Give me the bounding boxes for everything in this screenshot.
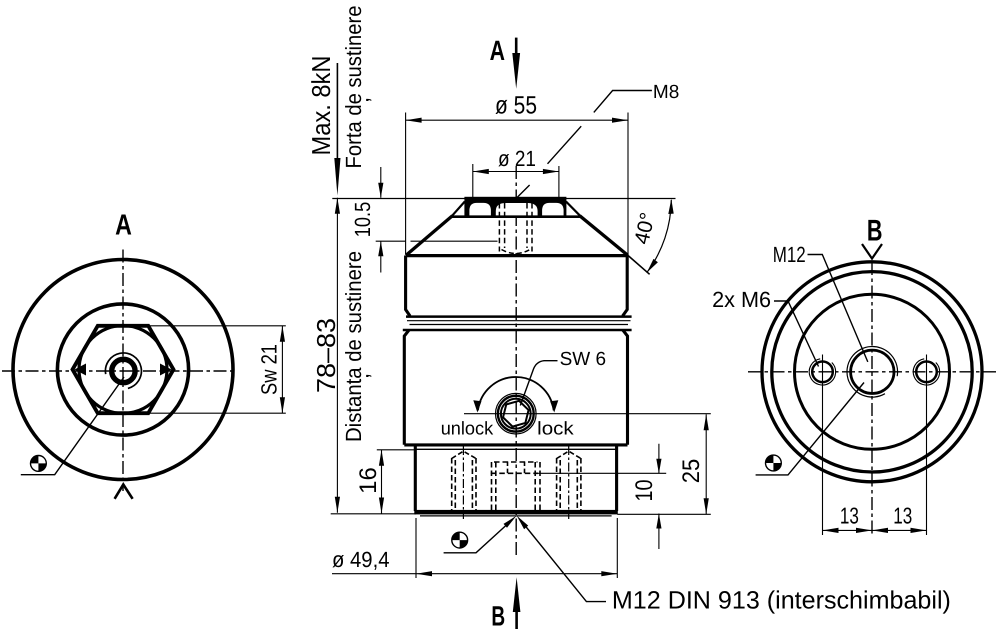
13 13 dimension [823,355,927,536]
M8 leader [517,91,652,198]
upper cylinder right edge [623,256,628,317]
svg-text:10.5: 10.5 [350,202,375,238]
pad top line thin [332,198,675,200]
svg-text:Distanta de sustinere: Distanta de sustinere [341,251,366,442]
bottom face bar [414,510,618,515]
center hole thick circle [112,359,135,382]
datum symbol center view [452,533,467,548]
horizontal centerline right view [748,371,996,373]
rotation arc [478,377,554,410]
hex chamfer circle [79,326,167,414]
10.5 dimension [380,167,382,273]
10 dimension [538,472,666,474]
svg-text:A: A [115,210,132,242]
pad top bar [464,197,566,217]
dia 49.4 dimension [416,518,617,578]
second circle right view [772,272,972,472]
16 dimension [377,449,414,451]
cone left slant [406,216,453,256]
pad dome right [541,202,565,217]
lower section top edge [403,329,632,332]
centerline vertical left view [122,250,124,492]
Sw21 arrow up [280,326,285,342]
M6 hole right dashed [557,451,581,510]
bottom cylinder right edge [615,446,618,511]
cone top edge [451,215,580,218]
lower section bottom edge [404,443,627,446]
bottom recess line [420,515,612,517]
svg-text:B: B [867,215,883,248]
upper cylinder bottom edge [406,315,632,318]
datum leader right view [756,383,864,475]
main centerline [515,166,517,558]
pad shoulder right [566,202,581,217]
cone right slant [580,216,628,256]
2x M6 leader [774,301,819,367]
Sw21 extension line bottom [130,412,286,414]
Sw21 arrow down [280,397,285,413]
svg-text:ø 55: ø 55 [495,92,537,120]
B view arrow [515,605,518,629]
svg-text:M12 DIN 913 (interschimbabil): M12 DIN 913 (interschimbabil) [612,587,951,615]
socket horizontal centerline [464,413,711,415]
bottom cylinder left edge [414,446,417,511]
pad dome middle [495,202,539,217]
inner circle right view [795,294,950,449]
datum symbol right view [766,455,781,470]
svg-text:25: 25 [678,459,705,484]
svg-text:,: , [349,97,374,103]
M8 hole dashed outer [499,203,532,252]
half section line at 10.5 [376,240,498,242]
svg-text:2x M6: 2x M6 [712,287,771,312]
svg-text:16: 16 [355,467,382,494]
svg-text:ø 21: ø 21 [498,146,536,171]
dia 21 dimension [472,164,474,199]
M8 hole dashed inner [505,203,527,248]
svg-text:M12: M12 [773,242,806,267]
upper cylinder left edge [406,256,410,317]
dia 55 dimension [405,113,407,255]
40 degree arc [647,200,672,273]
svg-text:,: , [349,373,374,379]
socket thread arc [496,393,537,434]
inner circle boss [57,304,188,435]
M8 hole dashed bottom [502,250,531,254]
groove line 2 [410,324,629,326]
centerline horizontal left view [2,370,236,372]
force arrow [336,63,338,172]
svg-text:lock: lock [537,418,574,439]
M12 center hole [851,350,894,393]
M6 hole left centerline [462,446,464,519]
cone right slant extension [628,255,650,274]
cone bottom edge [406,254,628,257]
M12 DIN leader [521,520,607,602]
outer circle body [13,260,233,480]
svg-text:10: 10 [631,480,658,502]
svg-text:M8: M8 [653,82,679,103]
rotation arrow right [550,400,558,412]
bottom cylinder top line [415,448,616,450]
leader from datum symbol to center [21,377,124,475]
svg-text:13: 13 [840,503,859,529]
section mark under left view [115,485,133,499]
lower section left edge [404,330,409,445]
svg-text:Forta de sustinere: Forta de sustinere [341,6,366,169]
svg-text:78–83: 78–83 [311,318,341,393]
M6 hole left dashed [452,451,476,510]
hex nut outline [73,326,174,413]
datum symbol left view [31,456,46,471]
M6 hole left [812,362,833,383]
rotation arrow left [473,400,481,412]
datum leader center view [444,520,513,553]
78-83 dimension line [336,198,338,513]
hex corner wedge left [75,364,87,376]
svg-text:Max. 8kN: Max. 8kN [306,56,336,156]
groove line 1 [407,320,631,322]
M12 hole dashed [491,462,540,511]
svg-text:SW 6: SW 6 [560,349,606,370]
pad dome left [468,202,492,217]
pad shoulder left [452,202,465,217]
svg-text:unlock: unlock [441,418,494,439]
bottom left extension line [331,513,416,515]
socket hex [501,398,530,429]
socket hex circles [498,396,534,432]
SW6 leader [520,361,557,406]
view direction mark [862,244,882,259]
svg-text:Sw 21: Sw 21 [257,344,282,395]
M12 thread arc [847,346,898,397]
svg-text:A: A [490,35,505,66]
svg-text:ø 49,4: ø 49,4 [332,547,390,572]
lower section right edge [623,330,628,445]
M12 leader right view [808,255,868,362]
outer circle right view [762,262,982,482]
thread arc center hole [105,353,141,388]
25 dimension [617,513,711,515]
M6 hole right [916,362,937,383]
view direction arrow A [515,38,518,60]
vertical centerline right view [871,262,873,535]
svg-text:13: 13 [893,503,912,529]
hex corner wedge right [160,364,172,376]
M6 hole right centerline [568,446,570,519]
svg-text:B: B [491,601,505,629]
Sw21 dimension line [281,326,283,413]
Sw21 extension line top [130,325,286,327]
